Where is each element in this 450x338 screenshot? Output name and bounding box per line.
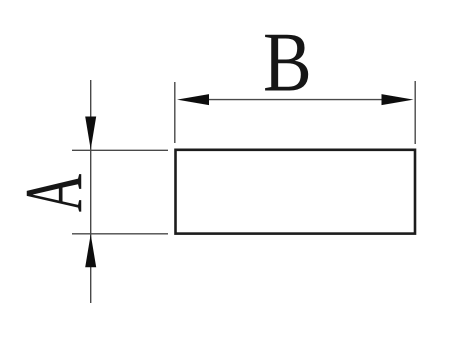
extension line bottom of dimension A	[72, 233, 168, 235]
dimension B right arrowhead	[382, 94, 414, 105]
dimension A top arrowhead pointing down	[85, 117, 96, 150]
dimension B line	[206, 99, 384, 101]
dimension B left arrowhead	[177, 94, 209, 105]
svg-text:B: B	[263, 15, 312, 109]
extension line top of dimension A	[72, 149, 168, 151]
part outline rectangle	[176, 150, 416, 234]
dimension A bottom arrowhead pointing up	[85, 234, 96, 267]
dimension A line	[90, 80, 92, 303]
svg-text:A: A	[9, 174, 101, 212]
extension line left of dimension B	[174, 82, 176, 143]
extension line right of dimension B	[414, 81, 416, 144]
